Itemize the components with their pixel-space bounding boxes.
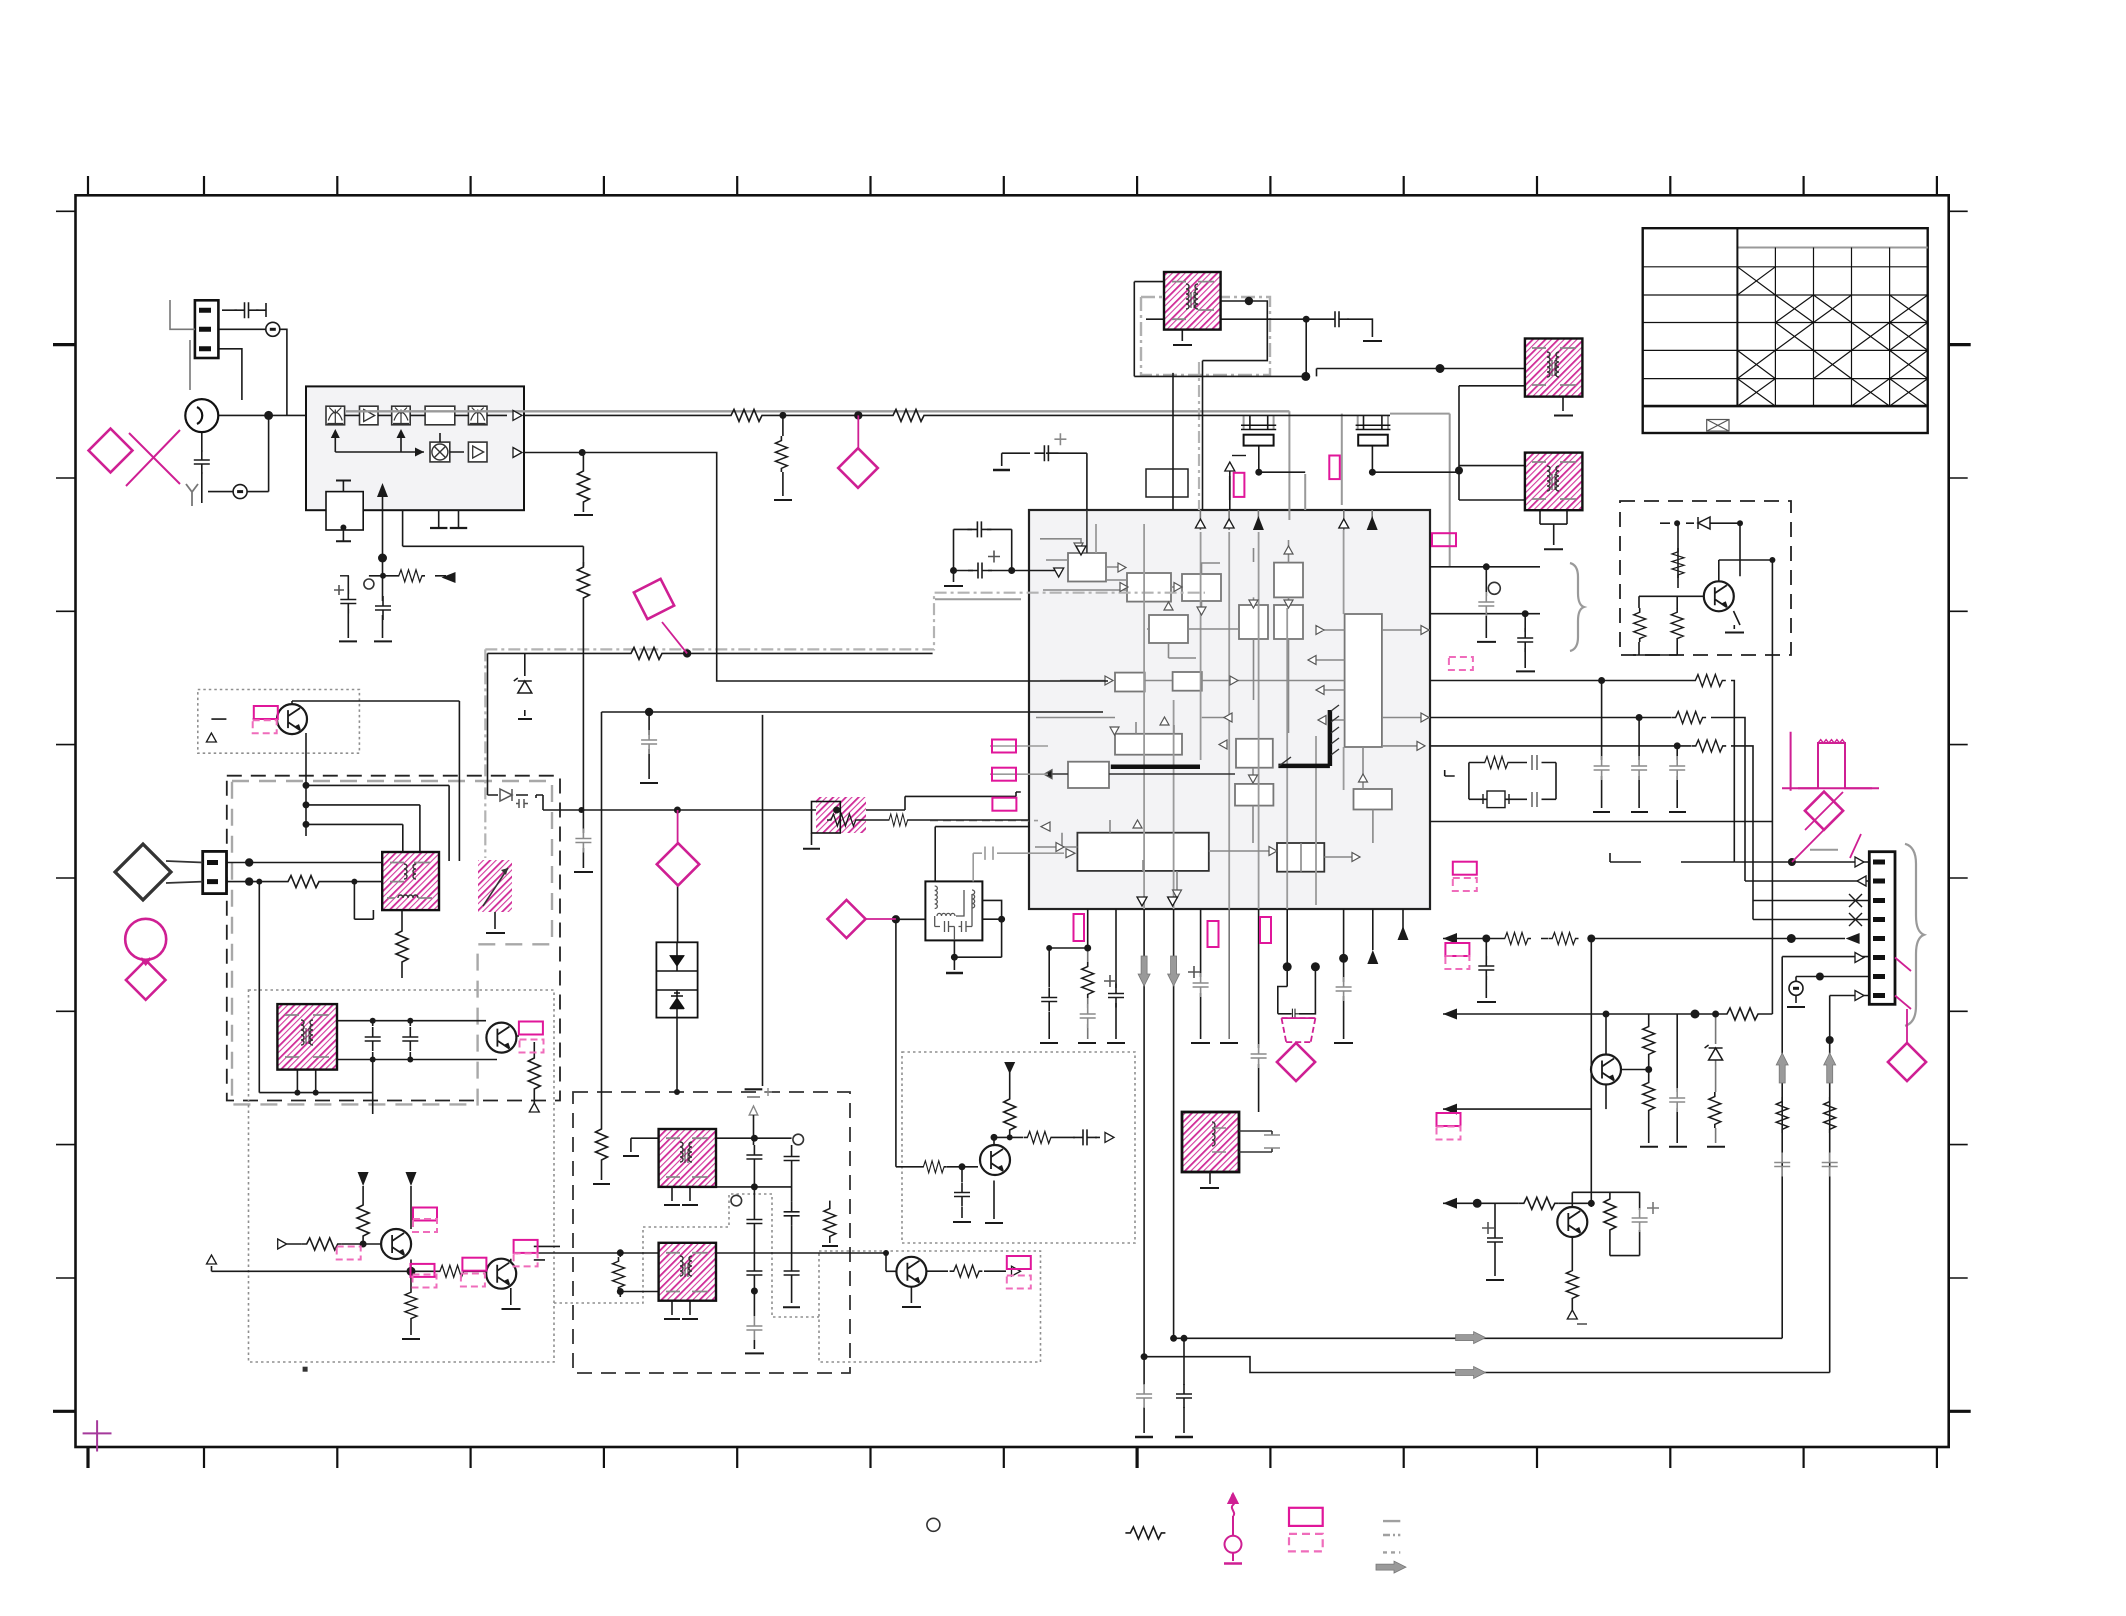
tuner block TU101	[306, 386, 524, 510]
conn pin2 wire	[218, 329, 287, 415]
right mid RC	[1445, 770, 1455, 776]
bottom ticks	[88, 1447, 1937, 1468]
transistors	[277, 704, 307, 734]
LEGEND	[927, 1494, 1406, 1573]
crystal nets	[1250, 415, 1305, 472]
shield verticals crystal area	[1288, 411, 1290, 520]
trimmer net	[342, 481, 344, 542]
legend circle	[927, 1518, 940, 1531]
dotted box Q1	[198, 690, 360, 754]
IC internal chevrons	[1041, 543, 1429, 898]
variable resistor hatch	[803, 797, 1029, 849]
tuner sub rf1	[326, 406, 487, 530]
T5 hatched transformer	[277, 1004, 337, 1070]
top ticks	[88, 176, 1937, 195]
T1 hatched transformer	[1164, 272, 1221, 330]
antenna input	[218, 414, 306, 416]
capacitors	[194, 450, 210, 474]
right long vertical	[1771, 560, 1773, 1014]
T2/T3 nets	[1317, 369, 1525, 377]
MAGENTA	[83, 415, 1926, 1451]
SIF diamond + link	[827, 900, 865, 938]
row lines	[1643, 266, 1928, 268]
Q4 right	[516, 1036, 534, 1105]
dual diode box	[656, 942, 697, 1017]
DASHBOXES	[198, 297, 1791, 1373]
Q8 nets	[910, 1287, 912, 1303]
IC right outputs	[1430, 567, 1540, 614]
PARTS	[170, 297, 1895, 1408]
footer x-box	[1707, 420, 1729, 432]
header gray line	[1737, 247, 1927, 249]
dash-dot pair down to IC	[1198, 362, 1200, 510]
X marks	[1737, 267, 1775, 295]
dashed box Q transistor	[1639, 523, 1704, 655]
conn pin1 wire	[222, 303, 266, 317]
wire tuner out2	[524, 453, 1108, 682]
diode dashed box	[1698, 517, 1710, 529]
column lines	[1736, 228, 1738, 406]
deflection diamond right	[1805, 792, 1843, 830]
dotted box audio out	[819, 1251, 1041, 1362]
tuner feedback internal	[335, 431, 464, 452]
hatched trap A	[659, 1129, 716, 1187]
dotted path join	[554, 1194, 819, 1317]
waveform	[1782, 732, 1879, 791]
cap ladder columns	[762, 715, 764, 1086]
connector to diamond	[1895, 958, 1911, 1044]
hatched trap T6	[1182, 1112, 1280, 1188]
resistors horizontal	[726, 409, 766, 421]
connector right CN	[1869, 852, 1895, 1005]
bus bold lines	[1111, 710, 1330, 767]
dashed box center bottom	[573, 1092, 850, 1373]
IC201 main block	[1029, 510, 1430, 909]
zener right	[1705, 1045, 1723, 1060]
T3 hatched transformer	[1525, 453, 1583, 511]
IF diamond	[838, 448, 878, 488]
legend gray lines	[1383, 1521, 1400, 1552]
dual diode verticals	[676, 885, 679, 1092]
FL box feeds	[935, 827, 1029, 882]
connector area nets	[1610, 853, 1734, 862]
legend resistor	[1125, 1527, 1165, 1539]
border frame	[76, 195, 1949, 1447]
trap area hatchA/B nets	[631, 1138, 659, 1152]
VIF diamond	[677, 810, 679, 843]
antenna diamond	[89, 429, 133, 473]
line into IC pin (y715)	[602, 712, 1104, 1180]
legend magenta source	[1224, 1494, 1242, 1564]
AGC RC	[348, 576, 446, 634]
IC internal wires	[1096, 524, 1344, 909]
zener mid	[514, 678, 532, 693]
dotted box Q7	[902, 1052, 1135, 1243]
antenna gnd chain	[202, 415, 269, 503]
HATCH	[277, 272, 1582, 1301]
IC sub blocks	[1068, 553, 1392, 872]
antenna circle	[185, 399, 218, 432]
IC top pin lines	[1086, 453, 1088, 510]
tuner icons	[327, 408, 343, 424]
T4 hatched transformer	[382, 852, 439, 910]
dashed box right (X-tal det)	[1620, 501, 1791, 655]
left ticks	[53, 211, 75, 1411]
T2 hatched transformer	[1525, 339, 1583, 397]
brace right of IC	[1570, 563, 1584, 651]
IC bottom pin lines	[1049, 909, 1088, 1039]
variable inductor hatch patch	[478, 860, 512, 933]
TABLE	[1643, 228, 1928, 433]
left double diamond	[114, 843, 203, 901]
Q7 dotted box nets	[896, 919, 978, 1167]
crystals	[1241, 425, 1390, 445]
zener stub	[524, 653, 526, 716]
hatched trap B	[659, 1243, 716, 1301]
tuner bottom grounds	[439, 510, 459, 528]
IC pin labels	[992, 740, 1016, 753]
bottom left Q5 Q6	[212, 1186, 487, 1335]
dashdot black companion	[488, 653, 933, 795]
diode AFT	[500, 789, 528, 808]
dash-dot AFT net	[485, 593, 1205, 650]
filter box FL	[925, 881, 982, 940]
box above IC	[1146, 469, 1188, 497]
BLACKWIRES	[202, 282, 1869, 1437]
circles	[1488, 582, 1500, 594]
wire AGC vertical	[582, 453, 584, 513]
magenta circle symbol	[125, 919, 166, 960]
pink label rects solid+dashed pairs	[254, 706, 278, 719]
dotted box traps	[249, 990, 555, 1362]
registration cross	[83, 1420, 112, 1451]
shield stubs into IC top	[1230, 474, 1305, 510]
dashed shield box left (L-shape)	[227, 776, 560, 1101]
revision table frame	[1643, 228, 1928, 433]
dash-dot shield around T1	[1141, 297, 1270, 375]
legend pink rects	[1289, 1508, 1323, 1526]
left connector nets	[227, 863, 383, 882]
AGC arrow line	[382, 497, 384, 634]
2pin connector left	[203, 851, 227, 893]
shield line IF	[346, 410, 1289, 412]
brace right of connector	[1905, 844, 1924, 1026]
T1 nets	[1134, 282, 1306, 377]
Q1 area	[211, 719, 278, 742]
arrows and chevrons	[513, 410, 522, 420]
trapezoid + diamond below IC	[1282, 1018, 1316, 1042]
T5 nets	[297, 1070, 315, 1093]
wire tuner out1 IF	[524, 414, 1390, 416]
3pin connector top	[170, 300, 218, 390]
right ticks	[1949, 211, 1971, 1411]
wire AGC link	[403, 510, 584, 546]
AFT diamond (tilted)	[634, 579, 674, 619]
GRAYBLOCKS	[306, 386, 1430, 1017]
conn pin3 wire	[218, 349, 242, 400]
AFT out line	[488, 792, 1021, 810]
main audio line y=1253	[534, 1253, 896, 1271]
diamond below	[126, 960, 166, 1000]
resistors vertical	[577, 466, 589, 506]
GRAYWIRES	[346, 362, 1924, 1026]
